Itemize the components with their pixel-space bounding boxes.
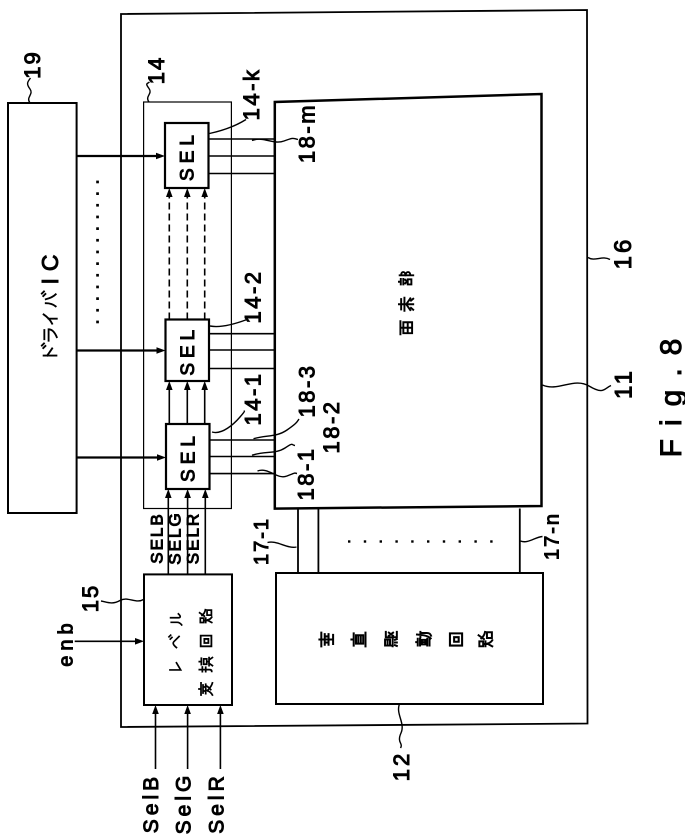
svg-text:11: 11: [611, 368, 638, 399]
wire: enb arrow into level conv: [75, 640, 136, 642]
svg-text:15: 15: [78, 584, 103, 612]
label 14-k leader: [210, 120, 247, 134]
svg-text:18-m: 18-m: [295, 103, 320, 163]
svg-text:18-2: 18-2: [319, 399, 344, 453]
svg-text:SelR: SelR: [206, 772, 229, 834]
svg-text:14: 14: [144, 56, 169, 84]
svg-text:SEL: SEL: [178, 325, 199, 376]
block SEL U3 (14-1): [166, 424, 210, 489]
block 11: pixel section box: [275, 94, 542, 509]
label 18-2 leader: [252, 444, 295, 455]
svg-text:SELB: SELB: [148, 512, 167, 563]
label ~19 leader: [28, 78, 32, 103]
wire: gate line 17-n: [519, 509, 521, 574]
label 18-3 leader: [254, 419, 300, 439]
svg-text:18-1: 18-1: [294, 446, 319, 500]
svg-text:14-2: 14-2: [241, 269, 266, 323]
label level-conv text line2 (hen-kan-kai-ro): [199, 683, 212, 695]
svg-text:17-1: 17-1: [251, 517, 273, 565]
block 12: vertical drive circuit box: [276, 573, 543, 704]
block 15: level conversion circuit box: [144, 574, 232, 705]
wire: gate line 17-2: [317, 509, 319, 574]
wire: level conv to SEL3, line SELR: [204, 497, 206, 574]
wire: SEL1 output line 3: [209, 173, 275, 175]
wire: SelB input to level conv: [155, 713, 157, 769]
svg-text:14-1: 14-1: [241, 371, 266, 425]
wire: SEL3 output line 18-3: [210, 439, 275, 441]
wire: dashed bus SEL2 to SEL1, line 3: [204, 197, 206, 320]
wire: dashed bus SEL2 to SEL1, line 1: [168, 197, 170, 320]
wire: SEL3 output line 18-1: [210, 473, 275, 475]
svg-text:SelB: SelB: [140, 773, 163, 833]
label 14-1 leader: [212, 411, 245, 433]
wire: bus SEL3 to SEL2, line 3: [204, 389, 206, 424]
svg-text:18-3: 18-3: [295, 363, 320, 417]
wire: SelR input to level conv: [219, 713, 221, 769]
label ~12 leader: [399, 704, 403, 748]
wire: driver IC to SEL2 arrow: [77, 349, 157, 351]
wire: driver IC to SEL3 arrow: [77, 456, 158, 458]
svg-text:Fig.8: Fig.8: [655, 326, 685, 458]
label 18-1 leader: [258, 470, 298, 477]
label 18-m leader: [252, 138, 298, 142]
wire: gate line 17-1: [297, 509, 299, 574]
svg-text:12: 12: [389, 751, 414, 781]
label vertical-drive text (sui-choku-ku-dou-kai-ro vertical): [319, 633, 333, 647]
wire: SEL2 output line 2: [209, 349, 275, 351]
wire: bus SEL3 to SEL2, line 2: [186, 389, 188, 424]
node: ellipsis dots between vertical drive and pixel box: [348, 540, 493, 542]
svg-text:enb: enb: [56, 618, 78, 666]
label ~11 leader: [543, 383, 612, 391]
block 19: driver IC box: [8, 103, 77, 513]
wire: level conv to SEL3, line SELG: [187, 497, 189, 574]
label 17-n leader: [521, 537, 543, 542]
label level-conv text line1 (re-be-ru): [170, 663, 181, 670]
wire: SEL2 output line 1: [209, 333, 275, 335]
svg-text:SEL: SEL: [179, 431, 200, 482]
label ~16 leader: [588, 258, 610, 260]
wire: bus SEL3 to SEL2, line 1: [168, 389, 170, 424]
label 14-2 leader: [210, 320, 247, 327]
block 16: panel outer rectangle: [121, 10, 588, 727]
block 14: selector column box: [144, 102, 232, 509]
node: ellipsis dots between driver IC and selector box: [96, 181, 99, 324]
label pixel-section text (ga-so-bu): [400, 321, 412, 334]
wire: SEL3 output line 18-2: [210, 456, 275, 458]
svg-text:SELR: SELR: [184, 512, 203, 564]
label ~15 leader: [101, 599, 144, 603]
block SEL U2 (14-2): [166, 320, 210, 382]
wire: SEL2 output line 3: [209, 368, 275, 370]
wire: SEL1 output line 2: [209, 155, 275, 157]
label driver IC text (katakana do-ra-i-ba): [42, 343, 57, 355]
svg-text:SelG: SelG: [173, 772, 196, 835]
svg-text:SEL: SEL: [178, 130, 199, 181]
svg-text:17-n: 17-n: [542, 512, 564, 560]
svg-text:SELG: SELG: [166, 511, 185, 564]
wire: driver IC to SEL1 arrow: [77, 155, 157, 157]
svg-text:16: 16: [610, 237, 637, 270]
wire: dashed bus SEL2 to SEL1, line 2: [186, 197, 188, 320]
label ~14 leader: [147, 82, 150, 102]
svg-text:19: 19: [20, 50, 45, 78]
label 17-1 leader: [268, 542, 297, 547]
block SEL U1 (14-k): [165, 123, 209, 188]
svg-text:14-k: 14-k: [239, 68, 264, 121]
wire: SEL1 output line 18-m: [209, 138, 275, 140]
wire: level conv to SEL3, line SELB: [167, 497, 169, 574]
wire: SelG input to level conv: [187, 713, 189, 769]
svg-text:IC: IC: [37, 248, 63, 285]
